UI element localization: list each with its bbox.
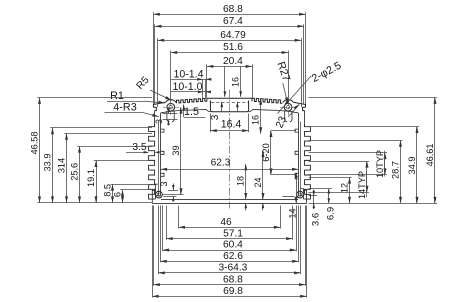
svg-text:68.8: 68.8 — [223, 4, 243, 15]
dim 19.1 — [96, 161, 98, 203]
svg-text:3: 3 — [159, 181, 169, 186]
svg-text:1.5: 1.5 — [184, 106, 199, 118]
svg-text:20.4: 20.4 — [223, 56, 243, 67]
extension lines right — [309, 97, 438, 99]
extension lines bottom — [178, 206, 180, 229]
svg-text:14TYP: 14TYP — [357, 171, 367, 199]
svg-text:314: 314 — [56, 158, 66, 173]
dim 31.4 — [66, 133, 68, 202]
heat-sink fins left — [149, 125, 155, 200]
svg-text:51.6: 51.6 — [223, 42, 243, 53]
svg-text:19.1: 19.1 — [86, 169, 96, 187]
dim 46.58 — [39, 98, 41, 203]
svg-text:3.6: 3.6 — [311, 213, 322, 226]
svg-text:62.6: 62.6 — [223, 251, 243, 262]
dim 57.1 — [166, 238, 292, 240]
pcb slot grooves left inner wall — [161, 129, 164, 132]
svg-text:8.5: 8.5 — [102, 184, 112, 197]
svg-text:57.1: 57.1 — [223, 228, 243, 239]
top wall right end corner — [293, 102, 305, 107]
svg-text:10TYP: 10TYP — [375, 150, 385, 178]
svg-text:46.61: 46.61 — [425, 144, 435, 167]
dim 6 — [122, 190, 124, 203]
svg-text:28.7: 28.7 — [390, 161, 400, 179]
screw channel neck left — [167, 111, 174, 122]
extension lines left — [37, 97, 152, 99]
svg-text:4-R3: 4-R3 — [113, 101, 136, 113]
svg-text:6.9: 6.9 — [326, 207, 337, 220]
svg-text:6: 6 — [112, 192, 122, 197]
serrated thread surface right — [252, 98, 282, 103]
pcb slot grooves right inner wall — [295, 129, 298, 132]
boss hump top-left — [166, 100, 176, 103]
screw boss bottom-left — [156, 191, 163, 198]
top wall inner face — [161, 110, 210, 113]
svg-text:24: 24 — [253, 177, 263, 187]
dim 12 — [349, 177, 351, 203]
screw channel neck right — [285, 111, 292, 122]
svg-text:62.3: 62.3 — [211, 157, 231, 168]
dim 14TYP — [366, 161, 368, 192]
screw boss top-right — [284, 103, 292, 111]
dim 64.79 — [158, 40, 301, 42]
dim 46 — [179, 227, 281, 229]
dim 68.8 bottom — [153, 284, 305, 286]
left wall inner face — [160, 113, 162, 197]
dim 67.4 — [155, 26, 304, 28]
dim 16.4 — [210, 114, 212, 133]
screw boss bottom-right — [297, 191, 304, 198]
svg-text:39: 39 — [171, 145, 181, 155]
dim 20.4 — [207, 66, 252, 68]
central plateau with tapping cavity 16.4x3 — [207, 98, 252, 101]
dim 69.8 — [152, 296, 306, 298]
dim 28.7 — [400, 140, 402, 203]
dim 34.9 — [416, 127, 418, 204]
boss hump top-right — [283, 100, 293, 103]
svg-text:3: 3 — [210, 114, 221, 120]
dim 68.8 top — [153, 14, 305, 16]
dim 62.6 — [160, 261, 298, 263]
svg-text:69.8: 69.8 — [223, 286, 243, 297]
dim 10TYP — [384, 153, 386, 175]
svg-text:18: 18 — [236, 176, 246, 186]
right wall inner face — [298, 113, 300, 197]
svg-text:12: 12 — [339, 183, 349, 193]
svg-text:46.58: 46.58 — [29, 132, 39, 155]
heat-sink fins right — [305, 125, 311, 200]
svg-text:16: 16 — [251, 115, 261, 125]
dim 33.9 — [52, 128, 54, 203]
dim 46.61 — [434, 98, 436, 204]
svg-text:33.9: 33.9 — [42, 154, 52, 172]
centerline cross boss top-left — [163, 107, 179, 109]
svg-text:3-64.3: 3-64.3 — [218, 263, 247, 274]
centerline cross boss top-right — [280, 107, 296, 109]
svg-text:46: 46 — [220, 217, 232, 228]
svg-text:3: 3 — [154, 119, 164, 124]
cover plate left hook — [152, 184, 158, 203]
svg-text:25.6: 25.6 — [69, 163, 79, 181]
dim 60.4 — [163, 250, 297, 252]
serrated thread surface left — [177, 98, 207, 103]
right wall outer face — [304, 111, 306, 127]
svg-text:34.9: 34.9 — [407, 157, 417, 175]
vertical centerline — [229, 90, 231, 209]
svg-text:67.4: 67.4 — [223, 16, 243, 27]
svg-text:16: 16 — [231, 77, 241, 87]
dim 51.6 — [171, 52, 288, 54]
cover plate right hook — [301, 189, 307, 204]
svg-text:16.4: 16.4 — [221, 119, 242, 131]
cavity bottom ledge lines — [164, 196, 177, 198]
cover plate body — [152, 203, 306, 205]
left wall outer face — [154, 111, 156, 127]
top wall left end corner — [153, 102, 165, 107]
svg-text:64.79: 64.79 — [220, 30, 246, 41]
dim 8.5 — [112, 184, 114, 203]
screw boss top-left — [167, 103, 175, 111]
left wall mid line — [158, 122, 160, 197]
svg-text:68.8: 68.8 — [223, 274, 243, 285]
cover plate top surface — [161, 199, 298, 201]
svg-text:3.5: 3.5 — [132, 142, 146, 153]
dim 3-64.3 — [158, 272, 300, 274]
svg-text:60.4: 60.4 — [223, 240, 243, 251]
dim 25.6 — [79, 146, 81, 203]
extension lines top — [153, 12, 155, 104]
svg-text:R1: R1 — [110, 90, 124, 102]
right wall mid line — [300, 122, 302, 197]
